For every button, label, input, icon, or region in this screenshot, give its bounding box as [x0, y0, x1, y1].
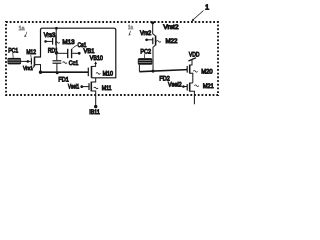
- svg-text:PC1: PC1: [8, 47, 18, 54]
- node FD1 junction dot left: [39, 71, 42, 74]
- transistor M22: [152, 38, 154, 45]
- wire Vrs3 to M13 gate: [46, 40, 52, 42]
- svg-text:M11: M11: [102, 85, 112, 92]
- node dot on PC1-M12 wire: [27, 60, 30, 63]
- wire FD2 line: [139, 70, 187, 72]
- label ~ M21: [194, 85, 198, 87]
- label ~ M22: [156, 41, 160, 43]
- leader PC1: [12, 53, 14, 58]
- svg-text:M22: M22: [166, 38, 179, 45]
- svg-text:Vrs1: Vrs1: [23, 66, 33, 72]
- svg-text:Vrs2: Vrs2: [140, 30, 152, 37]
- svg-text:Vsel2: Vsel2: [168, 82, 182, 89]
- svg-text:Vsel1: Vsel1: [68, 83, 80, 90]
- svg-text:Vrst2: Vrst2: [163, 24, 179, 31]
- leader arrow 1a right: [129, 31, 130, 35]
- node FD2 junction dot: [152, 70, 155, 73]
- wire M10 drain to VB10 arrow: [92, 63, 96, 66]
- svg-text:VDD: VDD: [189, 52, 200, 59]
- label ~ Cc1: [63, 62, 67, 64]
- photo element PC2 (hatched box): [138, 58, 152, 65]
- svg-text:M12: M12: [26, 49, 36, 56]
- svg-text:1a: 1a: [19, 26, 25, 32]
- node Cc1-FD1 junction dot: [56, 71, 59, 74]
- wire FD1 line: [41, 71, 88, 73]
- node Vrst2 junction dot on border: [151, 21, 154, 24]
- transistor M13: [52, 38, 54, 45]
- label 1 leader arrow: [193, 11, 203, 20]
- capacitor Cc1: [56, 53, 58, 60]
- label ~ M11: [94, 87, 98, 89]
- power VDD tick: [188, 58, 196, 61]
- wire PC1 to M12 gate: [21, 60, 31, 62]
- svg-text:M21: M21: [203, 83, 214, 90]
- svg-text:1: 1: [205, 2, 209, 11]
- transistor M21: [186, 84, 188, 91]
- wire RD1 node: [56, 52, 67, 54]
- photo element PC1 (hatched box): [8, 58, 22, 65]
- wire: supply C-loop (M12 drain - top rail - right edge - M10 source): [35, 28, 116, 78]
- node IB11 terminal dot: [94, 105, 97, 108]
- svg-text:VB10: VB10: [90, 55, 103, 62]
- svg-text:M10: M10: [103, 71, 114, 78]
- transistor M20: [186, 66, 188, 73]
- node RD1 junction dot: [55, 52, 58, 55]
- transistor M11: [88, 83, 90, 90]
- svg-text:M20: M20: [201, 69, 213, 76]
- node Vrs3 terminal dot: [44, 40, 47, 43]
- svg-text:Vrs3: Vrs3: [44, 32, 56, 39]
- label ~ M20: [193, 71, 197, 73]
- label ~ M13: [55, 42, 59, 44]
- leader PC2: [143, 54, 146, 58]
- label ~ M10: [96, 73, 100, 75]
- leader arrow 1a left: [25, 32, 27, 36]
- transistor M12: [30, 58, 32, 64]
- node VB1 terminal dot: [78, 52, 81, 55]
- wire PC2 to FD2: [138, 65, 140, 72]
- svg-text:1a: 1a: [128, 25, 133, 31]
- svg-text:M13: M13: [62, 39, 75, 46]
- dotted border box 1: [6, 22, 218, 95]
- wire Vrst2 dot to M22 drain: [153, 23, 156, 36]
- capacitor Cs1: [67, 49, 69, 58]
- node: M13 drain junction on rail: [55, 27, 58, 30]
- svg-text:Cs1: Cs1: [78, 42, 87, 49]
- svg-text:IB11: IB11: [89, 109, 100, 116]
- svg-text:PC2: PC2: [140, 48, 151, 55]
- svg-text:Cc1: Cc1: [69, 60, 79, 67]
- transistor M10: [87, 68, 89, 77]
